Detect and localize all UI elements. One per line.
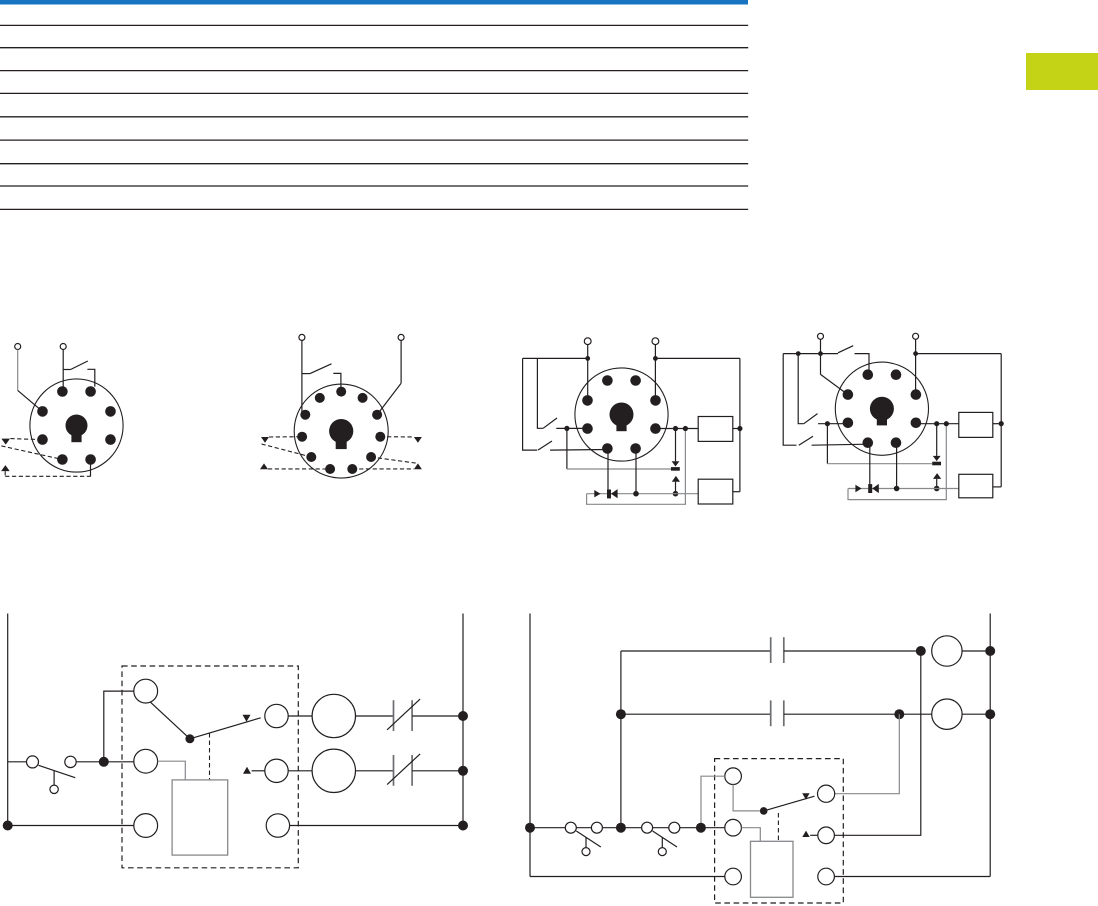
SK2 dashed NO to pin 6: [268, 468, 330, 470]
SK2 wire to pin 8: [377, 383, 401, 414]
SK2 terminal 2: [398, 334, 404, 340]
LD1 left rail: [7, 614, 9, 826]
SK3 polarity arrow: [594, 490, 600, 497]
SK4 diode D1 bar: [868, 484, 872, 493]
SK4 terminal 2: [913, 333, 919, 339]
SK2 switch blade: [310, 364, 332, 374]
SK3 left outer lead: [523, 358, 538, 450]
LD2 rowA wire c: [962, 650, 990, 652]
LD1 contact circle row2: [265, 759, 288, 782]
LD2 coil box: [751, 841, 794, 897]
LD2 contact circle NC: [818, 785, 835, 802]
SK4 wire R2 to right bus: [993, 486, 1001, 488]
SK4 clamp branch lower: [936, 479, 938, 489]
SK4 return elbow: [848, 424, 946, 500]
LD1 row1 NC slash: [387, 699, 420, 730]
LD1 row1 wire b: [356, 715, 394, 717]
LD1 contact circle row1: [265, 704, 288, 727]
LD1 row1 wire c: [412, 715, 463, 717]
SK1 right-lower pin: [105, 434, 116, 445]
SK3 clamp diode bar: [671, 467, 680, 471]
LD2 rail bottom node: [525, 823, 535, 833]
SK3 right bus: [739, 358, 741, 491]
SK2 pin 8: [372, 410, 382, 420]
SK1 wire terminal1 down: [17, 350, 19, 391]
SK3 wire R2 to right bus: [733, 491, 740, 493]
LD1 row2 NC bar 2: [411, 755, 413, 786]
LD2 rowA node: [916, 646, 926, 656]
SK4 branch j1 down: [826, 424, 828, 464]
LD1 load2 circle: [312, 749, 355, 792]
LD2 pushbutton1 contact a: [565, 822, 576, 833]
LD1 pushbutton blade: [39, 765, 76, 777]
SK4 left inner lead: [798, 354, 804, 424]
LD1 bottom wire right: [290, 825, 463, 827]
SK1 delayed-NO marker: [1, 465, 10, 471]
SK4 bottom-right pin: [891, 437, 902, 448]
SK3 node j3: [633, 491, 639, 497]
SK3 clamp branch node: [673, 426, 678, 431]
SK1 top-left pin: [57, 386, 68, 397]
SK4 bottom-left pin: [863, 437, 874, 448]
LD2 node n1: [616, 823, 626, 833]
SK4 clamp diode triangle: [933, 456, 941, 461]
LD2 rowA wire a: [621, 650, 771, 652]
LD2 pushbutton2 actuator: [658, 848, 666, 856]
LD2 riser NC contact: [835, 714, 900, 794]
LD2 rowB wire c: [899, 713, 931, 715]
SK1 terminal 1: [15, 344, 21, 350]
LD1 pole blade: [190, 718, 261, 739]
SK4 top-right pin: [891, 369, 902, 380]
SK3 branch j1 down: [566, 428, 568, 469]
LD2 pushbutton1 contact b: [591, 822, 602, 833]
LD1 pushbutton actuator: [50, 785, 58, 793]
SK2 center keyway: [329, 419, 353, 443]
SK2 pin 10: [366, 452, 376, 462]
SK3 bottom-left pin: [602, 443, 613, 454]
SK3 left-upper pin: [582, 395, 593, 406]
SK1 contact bracket: [87, 369, 94, 386]
SK4 node t2: [913, 351, 918, 356]
table rule 1: [0, 24, 748, 26]
SK3 top bus left: [523, 357, 588, 359]
SK3 left inner lead: [537, 358, 543, 428]
SK3 right-upper pin: [650, 395, 661, 406]
SK2 pin 1: [325, 464, 335, 474]
LD2 rowA NO bar 2: [783, 637, 785, 663]
LD2 bottom wire from rail: [530, 876, 725, 878]
LD1 row1 rail node: [458, 711, 468, 721]
SK4 terminal 1: [818, 333, 824, 339]
SK1 switch pole tick: [63, 369, 70, 371]
SK3 center keyway: [610, 403, 634, 427]
SK2 left delayed-NO marker: [260, 463, 268, 469]
SK3 lower switch blade: [538, 441, 552, 450]
SK3 bottom-right pin: [630, 443, 641, 454]
SK1 delayed-NC marker: [1, 439, 10, 445]
SK4 node j2: [934, 486, 940, 492]
LD2 rowB rail node: [985, 709, 995, 719]
LD2 riser from rowA: [620, 651, 622, 828]
SK2 pin 11: [347, 464, 357, 474]
SK1 dashed NC link to left-lower pin: [10, 439, 42, 440]
LD1 load1 circle: [312, 694, 355, 737]
SK4 bottom-left pin lead down: [869, 443, 871, 485]
LD1 blade NC marker: [243, 715, 251, 722]
LD2 pushbutton2 stem: [661, 837, 663, 847]
table rule 6: [0, 139, 748, 141]
SK3 lower contact wire to bottom-left pin: [550, 449, 607, 452]
SK4 lower contact wire to bottom-left pin: [812, 444, 868, 445]
SK3 top-left pin: [602, 375, 613, 386]
SK2 wire terminal1 down: [301, 341, 303, 414]
LD1 dashed unit box: [122, 666, 298, 868]
LD2 rowB NO bar 2: [783, 700, 785, 726]
LD1 pushbutton contact b: [65, 756, 76, 767]
LD1 row2 rail node: [458, 766, 468, 776]
SK3 wire terminal1 to left-upper pin: [587, 345, 589, 401]
SK4 left-lower pin: [843, 418, 854, 429]
SK4 left outer lead: [783, 354, 796, 446]
SK3 bottom-left pin lead down: [607, 449, 609, 491]
LD1 pushbutton stem: [53, 771, 55, 785]
LD2 terminal C: [725, 868, 742, 885]
SK3 branch j1 across: [567, 468, 671, 470]
LD2 rowB NO bar 1: [770, 700, 772, 726]
SK2 socket outline: [294, 384, 388, 478]
SK2 dashed NC to pin 4: [269, 436, 302, 438]
LD2 wire terminal B to coil: [741, 828, 760, 842]
LD1 row2 stub: [252, 770, 265, 772]
SK4 node m1: [796, 351, 801, 356]
SK1 right-upper pin: [105, 406, 116, 417]
LD2 contact circle common: [818, 868, 835, 885]
LD2 terminal A: [725, 768, 742, 785]
table rule 5: [0, 116, 748, 118]
SK4 center keyway: [870, 397, 894, 421]
LD1 mechanical link (dashed): [209, 733, 211, 780]
SK4 node t1: [818, 351, 823, 356]
SK2 switch pole tick: [302, 373, 310, 375]
SK4 mid contact wire to left-lower pin: [818, 423, 848, 425]
SK1 bottom-right pin: [85, 454, 96, 465]
table rule 2: [0, 47, 748, 49]
LD1 terminal A: [134, 679, 158, 703]
SK2 right delayed-NO marker: [414, 463, 422, 469]
SK3 left-lower pin: [582, 423, 593, 434]
SK2 pin 2: [306, 452, 316, 462]
SK3 node r1: [737, 426, 742, 431]
LD2 pushbutton1 actuator: [582, 848, 590, 856]
SK4 current arrow up: [933, 473, 941, 479]
SK2 pin 7: [358, 393, 368, 403]
LD2 terminal B: [725, 819, 742, 836]
LD1 row2 wire a: [288, 770, 312, 772]
SK3 clamp branch lower: [675, 482, 677, 494]
LD2 right rail: [989, 614, 991, 877]
table rule 9: [0, 208, 748, 210]
table rule 8: [0, 185, 748, 187]
LD1 bottom rail node: [3, 821, 13, 831]
SK3 relay R1 box: [698, 417, 733, 442]
SK3 node j1: [564, 426, 569, 431]
LD1 node n1: [99, 757, 109, 767]
SK4 node j4: [944, 421, 949, 426]
LD2 pushbutton2 blade: [653, 831, 677, 847]
LD1 coil box: [172, 780, 228, 855]
SK4 top-left pin: [863, 369, 874, 380]
LD1 bottom wire left: [8, 825, 134, 827]
SK4 wire terminal1 down: [820, 339, 822, 374]
LD1 right rail: [462, 614, 464, 831]
SK3 node j4: [683, 426, 688, 431]
SK4 diode D1 triangle: [872, 484, 879, 493]
SK2 dashed NC from pin 10: [380, 436, 414, 438]
SK4 lower switch blade: [799, 436, 813, 445]
SK3 upper switch blade: [543, 418, 557, 428]
SK2 dashed NO from pin 8b: [352, 468, 414, 470]
SK3 upper contact wire to left-lower pin: [556, 427, 587, 429]
LD1 terminal B: [134, 749, 158, 773]
SK4 top bus left: [783, 353, 838, 355]
LD2 contact circle NO: [818, 827, 835, 844]
SK2 right delayed-NC marker: [414, 437, 422, 443]
SK3 wire R1 to right bus: [733, 428, 740, 430]
SK4 clamp diode bar: [932, 462, 941, 466]
SK4 right-upper pin: [911, 389, 922, 400]
LD2 bottom output wire: [834, 876, 990, 878]
SK4 relay R2 box: [959, 474, 993, 498]
SK4 wire to left-upper pin: [821, 374, 848, 394]
LD2 node n2: [696, 823, 706, 833]
SK2 dashed NC diag to pin 5: [262, 444, 312, 457]
LD1 row1 NC bar 1: [393, 700, 395, 731]
SK3 node t1: [585, 356, 590, 361]
SK1 dashed NC link to bottom-left pin: [1, 446, 62, 460]
SK4 node j1: [825, 421, 830, 426]
LD1 row2 wire b: [356, 770, 394, 772]
SK4 node r1: [999, 421, 1004, 426]
SK2 contact bracket: [333, 373, 341, 386]
LD2 link terminal A to pole: [733, 785, 764, 811]
SK4 socket outline: [835, 362, 928, 455]
SK3 top-right pin: [630, 375, 641, 386]
SK4 clamp branch node: [934, 421, 939, 426]
SK3 terminal 1: [584, 338, 591, 345]
LD2 rowA NO bar 1: [770, 637, 772, 663]
LD2 rowB wire a: [621, 713, 771, 715]
SK4 bottom-right pin lead down: [896, 443, 898, 489]
LD1 wire terminal B to coil: [158, 761, 186, 780]
SK3 node t2: [653, 356, 658, 361]
SK4 branch j1 across: [827, 463, 932, 465]
SK3 diode D1 bar: [607, 490, 611, 499]
LD2 blade NC marker: [802, 793, 809, 799]
SK1 wire terminal2 to top-left pin: [62, 350, 64, 392]
LD1 input wire from rail: [8, 761, 27, 763]
LD2 pushbutton1 blade: [576, 831, 601, 847]
SK3 diode row: [587, 493, 699, 495]
SK4 top contact bracket: [855, 354, 870, 372]
SK4 diode row: [848, 488, 959, 490]
LD2 mechanical link (dashed): [777, 813, 779, 841]
LD1 contact circle row3: [266, 814, 289, 837]
SK4 right bus: [1000, 354, 1002, 487]
SK2 pin 3: [297, 432, 307, 442]
LD2 stub NO: [810, 834, 818, 836]
SK3 return elbow: [587, 429, 686, 505]
SK4 wire R1 to right bus: [993, 423, 1001, 425]
SK4 left-upper pin: [843, 389, 854, 400]
LD2 bottom input wire: [530, 827, 725, 829]
SK3 terminal 2: [652, 338, 659, 345]
LD1 riser node to row1: [104, 691, 134, 762]
LD1 pushbutton contact a: [27, 756, 39, 768]
LD1 input wire to node: [76, 761, 104, 763]
SK1 dashed NO riser: [4, 471, 6, 476]
LD1 pole node: [185, 734, 194, 743]
SK1 left-lower pin: [37, 434, 48, 445]
SK1 switch blade: [71, 361, 88, 370]
SK4 right-lower pin: [911, 418, 922, 429]
LD1 row2 NC bar 1: [393, 755, 395, 786]
SK3 right-lower pin: [650, 423, 661, 434]
LD2 rowB wire d: [962, 713, 990, 715]
SK4 top switch blade: [838, 346, 853, 353]
SK3 current arrow up: [672, 476, 680, 482]
SK4 wire right-lower pin to R1: [916, 423, 959, 425]
LD2 riser NO contact: [834, 651, 920, 835]
SK4 clamp branch down: [936, 424, 938, 456]
SK2 pin 4: [300, 410, 310, 420]
LD1 row3 rail node: [458, 821, 468, 831]
SK2 pin 5: [315, 393, 325, 403]
SK4 mid switch blade: [804, 414, 818, 424]
SK4 node j3: [894, 486, 900, 492]
SK1 wire to left-upper pin: [18, 390, 43, 411]
LD1 row2 NO marker: [243, 767, 251, 774]
LD1 wire node to terminal B: [104, 761, 134, 763]
LD2 left rail: [529, 614, 531, 877]
LD2 NO marker: [802, 831, 809, 837]
SK3 wire terminal2 to right-upper pin: [654, 345, 656, 401]
SK3 relay R2 box: [698, 479, 733, 504]
LD2 rowA wire b: [784, 650, 921, 652]
SK2 dashed NO diag from pin 9: [371, 457, 417, 463]
LD2 lamp1: [932, 636, 962, 666]
SK1 terminal 2: [60, 344, 66, 350]
SK4 top bus right: [916, 353, 1002, 355]
SK2 wire terminal2 down: [400, 341, 402, 384]
LD1 link terminal A to pole: [150, 702, 190, 739]
SK3 clamp diode triangle: [672, 461, 680, 466]
SK1 dashed NO link to bottom-right pin: [5, 475, 91, 477]
SK1 socket outline: [30, 379, 123, 472]
LD2 rowA rail node: [985, 646, 995, 656]
SK2 terminal 1: [299, 334, 305, 340]
SK1 left-upper pin: [37, 406, 48, 417]
LD2 pole blade: [764, 796, 815, 811]
LD2 pushbutton2 contact a: [642, 822, 653, 833]
SK3 clamp branch down: [675, 429, 677, 462]
LD2 dashed unit box: [715, 759, 844, 903]
table rule 7: [0, 163, 748, 165]
LD2 wire terminal A out: [701, 776, 725, 828]
LD1 row2 wire c: [412, 770, 463, 772]
SK3 socket outline: [575, 368, 668, 461]
LD2 node rowB riser: [616, 709, 626, 719]
SK4 wire terminal2 to right-upper pin: [915, 339, 917, 394]
LD1 terminal C: [134, 814, 158, 838]
SK1 bottom-right pin tick: [90, 465, 92, 477]
table rule 3: [0, 70, 748, 72]
side tab (yellow-green): [1026, 53, 1098, 90]
SK1 center keyway: [66, 415, 88, 437]
LD1 row1 wire a: [288, 715, 312, 717]
SK2 left delayed-NC marker: [261, 437, 269, 443]
LD2 rowB wire b: [784, 713, 900, 715]
SK4 polarity arrow: [855, 485, 861, 492]
LD2 lamp2: [932, 699, 962, 729]
SK3 bottom-right pin lead down: [635, 449, 637, 494]
SK3 top bus right: [655, 357, 740, 359]
SK2 pin 6: [336, 387, 346, 397]
LD2 pushbutton2 contact b: [669, 822, 680, 833]
LD1 row2 NC slash: [387, 754, 420, 785]
SK3 wire right-lower pin to R1: [656, 428, 699, 430]
SK3 diode D1 triangle: [611, 489, 618, 498]
LD2 pushbutton1 stem: [585, 837, 587, 847]
SK3 node j2: [673, 491, 679, 497]
LD2 pole node: [760, 807, 768, 815]
SK1 bottom-left pin: [57, 454, 68, 465]
SK1 top-right pin: [85, 386, 96, 397]
LD1 row1 NC bar 2: [411, 700, 413, 731]
header blue bar: [0, 0, 748, 5]
SK4 relay R1 box: [959, 412, 993, 437]
table rule 4: [0, 92, 748, 94]
SK2 pin 9: [375, 432, 385, 442]
LD2 rowB node: [894, 709, 904, 719]
